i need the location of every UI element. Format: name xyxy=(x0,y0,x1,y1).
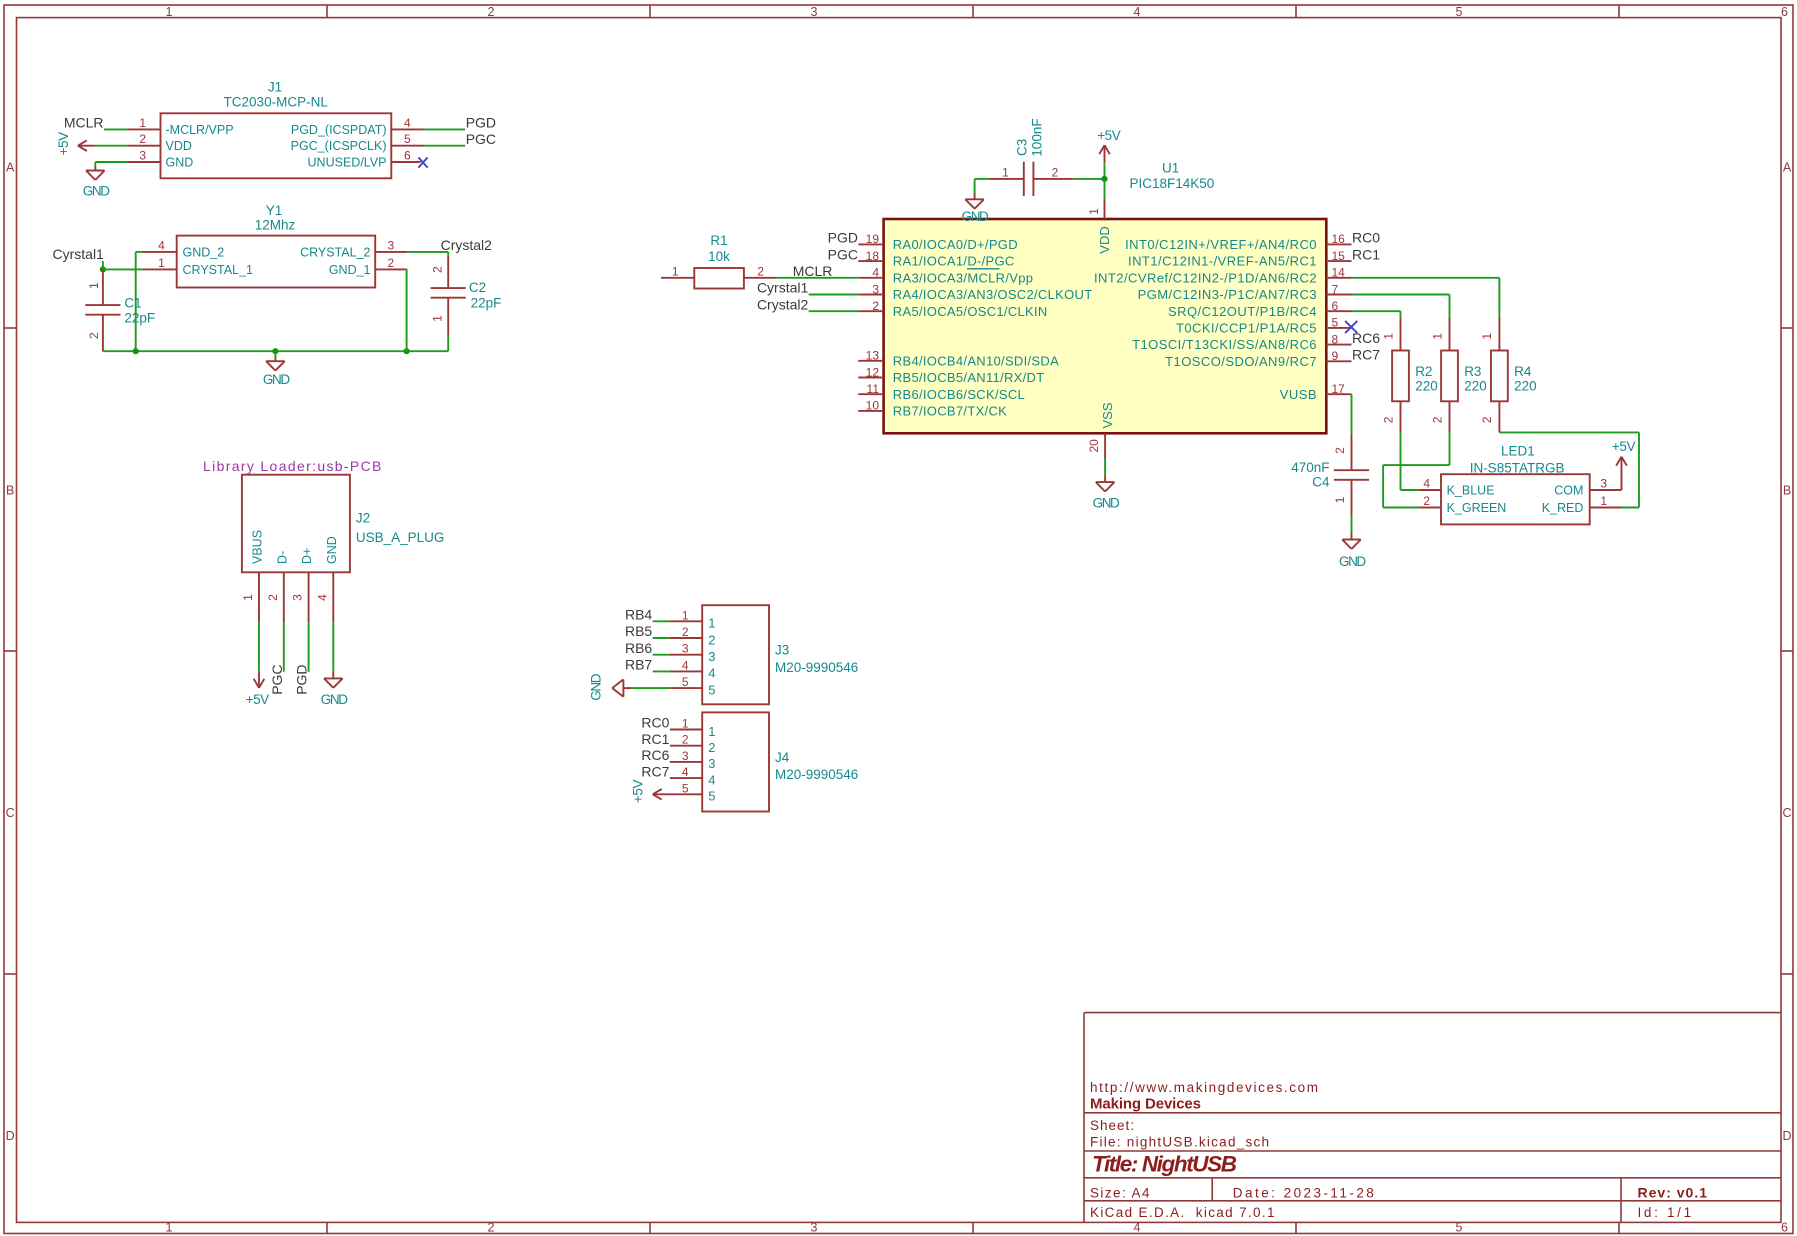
svg-text:LED1: LED1 xyxy=(1501,443,1535,458)
svg-text:1: 1 xyxy=(166,1221,173,1235)
svg-text:8: 8 xyxy=(1332,332,1339,346)
svg-text:1: 1 xyxy=(1333,496,1347,503)
label PGC (U1 pin 18) xyxy=(828,246,858,262)
J1 pin 6 UNUSED/LVP xyxy=(308,149,421,170)
svg-text:PGC: PGC xyxy=(828,246,858,262)
svg-text:RC0: RC0 xyxy=(641,715,669,731)
LED1 reference LED1 xyxy=(1501,443,1535,458)
svg-text:PGD: PGD xyxy=(294,664,310,694)
R1 reference R1 xyxy=(710,233,727,248)
R4 value 220 xyxy=(1514,378,1537,393)
svg-text:Making Devices: Making Devices xyxy=(1090,1095,1201,1112)
svg-text:+5V: +5V xyxy=(1612,439,1636,454)
svg-text:RB7: RB7 xyxy=(625,657,652,673)
svg-text:1: 1 xyxy=(158,256,165,270)
svg-text:B: B xyxy=(1783,483,1791,497)
svg-text:GND_2: GND_2 xyxy=(183,245,225,259)
svg-text:GND: GND xyxy=(83,184,110,199)
svg-text:2: 2 xyxy=(431,266,445,273)
svg-text:T0CKI/CCP1/P1A/RC5: T0CKI/CCP1/P1A/RC5 xyxy=(1176,321,1317,336)
svg-text:17: 17 xyxy=(1332,382,1346,396)
label Cyrstal1 (U1 pin 3) xyxy=(757,280,809,296)
svg-text:Library Loader:usb-PCB: Library Loader:usb-PCB xyxy=(203,458,381,474)
wire U1 pin 14 to R4 xyxy=(1352,278,1500,318)
svg-text:3: 3 xyxy=(811,1221,818,1235)
J1 pin 1 -MCLR/VPP xyxy=(128,116,234,137)
svg-text:Crystal2: Crystal2 xyxy=(757,296,809,312)
title block Id: 1/1 xyxy=(1638,1205,1692,1220)
C2 reference C2 xyxy=(469,280,486,295)
svg-text:3: 3 xyxy=(139,149,146,163)
svg-text:10: 10 xyxy=(866,399,880,413)
svg-text:5: 5 xyxy=(1456,5,1463,19)
U1 pin 4 RA3/IOCA3/MCLR/Vpp xyxy=(858,266,1033,286)
wire U1 pin 17 (VUSB) down to C4 xyxy=(1351,394,1353,433)
svg-text:2: 2 xyxy=(682,733,689,747)
title block Rev: v0.1 xyxy=(1638,1184,1708,1200)
ground GND at J3 pin 5 (left arrow) xyxy=(588,673,631,700)
U1 pin 15 INT1/C12IN1-/VREF-AN5/RC1 xyxy=(1128,249,1351,269)
wire RB7 to J3 xyxy=(653,670,670,672)
title block Date: 2023-11-28 xyxy=(1233,1185,1374,1200)
J4 pin 4 xyxy=(670,765,716,787)
svg-text:+5V: +5V xyxy=(631,780,646,804)
title block Sheet: xyxy=(1090,1118,1134,1133)
svg-text:+5V: +5V xyxy=(246,692,270,707)
svg-text:K_RED: K_RED xyxy=(1542,501,1584,515)
ground GND at U1 VSS xyxy=(1093,476,1120,511)
C3 reference C3 xyxy=(1015,139,1030,156)
svg-text:RA5/IOCA5/OSC1/CLKIN: RA5/IOCA5/OSC1/CLKIN xyxy=(893,304,1048,319)
svg-text:D+: D+ xyxy=(300,548,314,564)
label RC6 (J4) xyxy=(641,747,669,763)
wire U1 pin 3 to Cyrstal1 label xyxy=(809,294,859,296)
svg-text:18: 18 xyxy=(866,249,880,263)
svg-text:GND: GND xyxy=(1339,554,1366,569)
svg-text:J3: J3 xyxy=(775,643,789,658)
svg-text:2: 2 xyxy=(872,299,879,313)
svg-text:PIC18F14K50: PIC18F14K50 xyxy=(1130,176,1215,191)
J1 value TC2030-MCP-NL xyxy=(224,94,329,109)
svg-text:-MCLR/VPP: -MCLR/VPP xyxy=(166,123,234,137)
svg-text:VSS: VSS xyxy=(1100,402,1115,428)
capacitor C3 symbol xyxy=(989,162,1072,196)
svg-text:D: D xyxy=(1782,1129,1791,1143)
svg-text:RB7/IOCB7/TX/CK: RB7/IOCB7/TX/CK xyxy=(893,404,1007,419)
Y1 pin 1 CRYSTAL_1 xyxy=(143,256,253,277)
junction VDD node xyxy=(1101,176,1107,182)
svg-text:9: 9 xyxy=(1332,349,1339,363)
J2 pin 2 D- xyxy=(266,551,289,623)
wire J2 pin 1 to +5V xyxy=(258,622,260,672)
svg-text:M20-9990546: M20-9990546 xyxy=(775,767,858,782)
wire C3 pin1 to GND corner xyxy=(975,179,990,193)
svg-text:CRYSTAL_1: CRYSTAL_1 xyxy=(183,263,253,277)
svg-text:4: 4 xyxy=(682,765,689,779)
label Cyrstal1 xyxy=(53,246,105,262)
svg-text:R3: R3 xyxy=(1464,364,1481,379)
connector J2 body xyxy=(242,475,350,573)
ground GND at J2 pin 4 xyxy=(321,672,348,707)
crystal Y1 body xyxy=(177,236,376,288)
svg-text:100nF: 100nF xyxy=(1030,118,1045,156)
R3 value 220 xyxy=(1464,378,1487,393)
svg-text:2: 2 xyxy=(708,632,715,647)
power +5V at LED1 pin 3 (COM) xyxy=(1612,439,1636,490)
svg-text:22pF: 22pF xyxy=(124,310,155,325)
power +5V at J4 pin 5 (left arrow) xyxy=(631,780,671,804)
svg-text:1: 1 xyxy=(682,717,689,731)
svg-text:Title: NightUSB: Title: NightUSB xyxy=(1092,1152,1237,1177)
ground GND at C3 pin 1 xyxy=(962,193,989,224)
svg-text:RA4/IOCA3/AN3/OSC2/CLKOUT: RA4/IOCA3/AN3/OSC2/CLKOUT xyxy=(893,287,1093,302)
svg-text:PGC: PGC xyxy=(466,131,496,147)
svg-text:C3: C3 xyxy=(1015,139,1030,156)
svg-text:3: 3 xyxy=(1600,477,1607,491)
J4 value M20-9990546 xyxy=(775,767,858,782)
resistor R1 xyxy=(661,264,777,288)
IC U1 body xyxy=(884,219,1327,433)
J2 reference J2 xyxy=(356,511,370,526)
junction bottom wire / GND stub xyxy=(272,348,278,354)
U1 value PIC18F14K50 xyxy=(1130,176,1215,191)
svg-text:1: 1 xyxy=(708,724,715,739)
svg-text:7: 7 xyxy=(1332,282,1339,296)
svg-text:3: 3 xyxy=(708,649,715,664)
J4 reference J4 xyxy=(775,750,790,765)
svg-text:R4: R4 xyxy=(1514,364,1532,379)
svg-text:2: 2 xyxy=(87,332,101,339)
svg-text:4: 4 xyxy=(404,116,411,130)
U1 pin 3 RA4/IOCA3/AN3/OSC2/CLKOUT xyxy=(858,282,1092,302)
wire Y1 pin 3 to Crystal2/C2 xyxy=(407,252,448,256)
label PGD (J2 pin 3) xyxy=(294,664,310,694)
svg-text:1: 1 xyxy=(682,608,689,622)
label RC6 (U1 pin 8) xyxy=(1352,330,1380,346)
svg-text:Y1: Y1 xyxy=(266,203,283,218)
U1 pin 10 RB7/IOCB7/TX/CK xyxy=(858,399,1007,419)
svg-text:MCLR: MCLR xyxy=(64,114,104,130)
svg-text:RB6/IOCB6/SCK/SCL: RB6/IOCB6/SCK/SCL xyxy=(893,387,1025,402)
svg-text:3: 3 xyxy=(872,282,879,296)
J4 pin 3 xyxy=(670,749,716,771)
svg-text:Rev: v0.1: Rev: v0.1 xyxy=(1638,1184,1708,1200)
svg-text:2: 2 xyxy=(488,5,495,19)
wire R3 to LED1 pin 2 (K_GREEN) xyxy=(1383,432,1449,507)
svg-text:J2: J2 xyxy=(356,511,370,526)
J4 pin 2 xyxy=(670,733,716,755)
U1 pin 12 RB5/IOCB5/AN11/RX/DT xyxy=(858,365,1044,385)
LED1 pin 4 K_BLUE xyxy=(1418,477,1494,498)
svg-text:T1OSCO/SDO/AN9/RC7: T1OSCO/SDO/AN9/RC7 xyxy=(1165,354,1317,369)
svg-text:INT1/C12IN1-/VREF-AN5/RC1: INT1/C12IN1-/VREF-AN5/RC1 xyxy=(1128,254,1317,269)
R1 value 10k xyxy=(708,249,730,264)
svg-text:RC7: RC7 xyxy=(1352,347,1380,363)
svg-text:K_GREEN: K_GREEN xyxy=(1447,501,1507,515)
svg-text:CRYSTAL_2: CRYSTAL_2 xyxy=(300,245,370,259)
U1 reference U1 xyxy=(1162,161,1179,176)
svg-text:15: 15 xyxy=(1332,249,1346,263)
no-connect X at J1 pin 6 xyxy=(418,157,427,167)
svg-text:C: C xyxy=(1782,806,1791,820)
svg-text:5: 5 xyxy=(1332,316,1339,330)
svg-text:2: 2 xyxy=(1052,166,1059,180)
svg-text:RB4/IOCB4/AN10/SDI/SDA: RB4/IOCB4/AN10/SDI/SDA xyxy=(893,353,1059,368)
svg-text:D: D xyxy=(6,1129,15,1143)
svg-text:RC6: RC6 xyxy=(641,747,669,763)
svg-text:4: 4 xyxy=(1134,5,1141,19)
svg-text:RA3/IOCA3/MCLR/Vpp: RA3/IOCA3/MCLR/Vpp xyxy=(893,270,1034,285)
U1 pin 8 T1OSCI/T13CKI/SS/AN8/RC6 xyxy=(1132,332,1351,352)
svg-text:COM: COM xyxy=(1554,484,1583,498)
title block frame xyxy=(1084,1013,1781,1223)
wire C3 pin2 to VDD junction xyxy=(1073,178,1105,180)
svg-text:VDD: VDD xyxy=(166,139,192,153)
LED LED1 body xyxy=(1441,474,1590,524)
svg-text:Crystal2: Crystal2 xyxy=(441,237,493,253)
svg-text:4: 4 xyxy=(1134,1221,1141,1235)
svg-text:3: 3 xyxy=(682,749,689,763)
capacitor C4 symbol xyxy=(1333,433,1369,516)
svg-text:5: 5 xyxy=(1456,1221,1463,1235)
resistor R2 xyxy=(1381,318,1409,433)
label RB4 (J3) xyxy=(625,607,652,623)
wire J2 pin 2 to PGC label xyxy=(283,622,285,672)
svg-text:2: 2 xyxy=(488,1221,495,1235)
wire R2 to LED1 pin 4 (K_BLUE) xyxy=(1401,432,1419,490)
svg-text:GND: GND xyxy=(325,536,339,564)
svg-text:19: 19 xyxy=(866,232,880,246)
junction bottom wire / Y1 pin4 branch xyxy=(133,348,139,354)
C3 value 100nF xyxy=(1030,118,1045,156)
wire C2 bottom to bottom net xyxy=(447,335,449,351)
svg-text:22pF: 22pF xyxy=(471,296,502,311)
label MCLR (J1 pin 1) xyxy=(64,114,104,130)
svg-text:4: 4 xyxy=(682,658,689,672)
resistor R3 xyxy=(1430,318,1458,433)
svg-text:16: 16 xyxy=(1332,232,1346,246)
wire Y1 pin 2 down to bottom net xyxy=(406,269,409,351)
svg-text:GND_1: GND_1 xyxy=(329,263,371,277)
svg-text:GND: GND xyxy=(321,692,348,707)
svg-text:1: 1 xyxy=(1087,208,1101,215)
wire Cyrstal1 label to junction xyxy=(102,261,104,269)
J3 pin 1 xyxy=(670,608,716,630)
svg-text:3: 3 xyxy=(388,238,395,252)
wire U1 pin 6 to R2 xyxy=(1352,311,1401,317)
svg-text:470nF: 470nF xyxy=(1291,460,1329,475)
svg-text:4: 4 xyxy=(708,666,715,681)
svg-text:2: 2 xyxy=(1423,494,1430,508)
svg-text:4: 4 xyxy=(1423,477,1430,491)
LED1 value IN-S85TATRGB xyxy=(1470,460,1565,475)
label RB7 (J3) xyxy=(625,657,652,673)
label RC0 (J4) xyxy=(641,715,669,731)
U1 pin 17 VUSB xyxy=(1280,382,1352,402)
svg-text:1: 1 xyxy=(672,264,679,278)
svg-text:INT0/C12IN+/VREF+/AN4/RC0: INT0/C12IN+/VREF+/AN4/RC0 xyxy=(1125,237,1317,252)
wire J2 pin 3 to PGD label xyxy=(308,622,310,672)
wire RB6 to J3 xyxy=(653,654,670,656)
power +5V (down arrow) at J2 pin 1 xyxy=(246,672,270,707)
svg-text:IN-S85TATRGB: IN-S85TATRGB xyxy=(1470,460,1565,475)
svg-text:10k: 10k xyxy=(708,249,730,264)
svg-text:C4: C4 xyxy=(1312,474,1330,489)
svg-text:C2: C2 xyxy=(469,280,486,295)
U1 pin 16 INT0/C12IN+/VREF+/AN4/RC0 xyxy=(1125,232,1351,252)
title block Size: A4 xyxy=(1090,1185,1150,1200)
svg-text:1: 1 xyxy=(431,315,445,322)
power +5V symbol at J1 pin 2 xyxy=(56,132,95,156)
svg-text:1: 1 xyxy=(166,5,173,19)
C4 value 470nF xyxy=(1291,460,1329,475)
svg-text:T1OSCI/T13CKI/SS/AN8/RC6: T1OSCI/T13CKI/SS/AN8/RC6 xyxy=(1132,337,1317,352)
capacitor C1 symbol xyxy=(85,269,120,351)
svg-text:RB4: RB4 xyxy=(625,607,652,623)
ground GND at C4 xyxy=(1339,534,1366,570)
svg-text:C1: C1 xyxy=(124,296,141,311)
J2 footprint label Library Loader:usb-PCB xyxy=(203,458,381,474)
Y1 pin 4 GND_2 xyxy=(143,238,225,259)
junction at Cyrstal1 node xyxy=(100,266,106,272)
svg-text:2: 2 xyxy=(757,264,764,278)
svg-text:1: 1 xyxy=(241,594,255,601)
J1 pin 5 PGC_(ICSPCLK) xyxy=(291,132,423,153)
svg-text:14: 14 xyxy=(1332,266,1346,280)
wire RB5 to J3 xyxy=(653,637,670,639)
svg-text:A: A xyxy=(1783,160,1792,174)
J1 reference J1 xyxy=(268,80,282,95)
ground GND under Y1 xyxy=(263,351,290,387)
svg-text:RC1: RC1 xyxy=(641,731,669,747)
J1 pin 3 GND xyxy=(128,149,194,170)
svg-text:http://www.makingdevices.com: http://www.makingdevices.com xyxy=(1090,1080,1318,1095)
svg-text:220: 220 xyxy=(1415,378,1438,393)
svg-text:PGD_(ICSPDAT): PGD_(ICSPDAT) xyxy=(291,123,387,137)
J3 value M20-9990546 xyxy=(775,660,858,675)
svg-text:2: 2 xyxy=(682,625,689,639)
bottom ground wire under Y1 xyxy=(103,350,448,352)
svg-text:INT2/CVRef/C12IN2-/P1D/AN6/RC2: INT2/CVRef/C12IN2-/P1D/AN6/RC2 xyxy=(1094,270,1317,285)
svg-text:GND: GND xyxy=(962,209,989,224)
title block Title: NightUSB xyxy=(1092,1152,1237,1177)
svg-text:GND: GND xyxy=(166,155,194,169)
wire U1 pin 2 to Crystal2 label xyxy=(809,310,859,312)
U1 pin 19 RA0/IOCA0/D+/PGD xyxy=(858,232,1018,252)
svg-text:RB5: RB5 xyxy=(625,623,652,639)
wire R1 pin 2 to MCLR net / U1 pin 4 xyxy=(777,277,859,279)
svg-text:1: 1 xyxy=(1600,494,1607,508)
J3 pin 4 xyxy=(670,658,716,680)
svg-text:J1: J1 xyxy=(268,80,282,95)
label RC1 (U1 pin 15) xyxy=(1352,246,1380,262)
svg-text:PGC: PGC xyxy=(269,664,285,694)
R2 reference R2 xyxy=(1415,364,1432,379)
wire junction to Y1 pin 1 xyxy=(103,268,143,270)
svg-text:Id: 1/1: Id: 1/1 xyxy=(1638,1205,1692,1220)
wire Y1 pin 4 down to bottom net xyxy=(136,252,143,351)
wire J1 pin 4 to PGD label xyxy=(423,128,465,130)
svg-text:PGD: PGD xyxy=(828,230,858,246)
svg-text:U1: U1 xyxy=(1162,161,1179,176)
svg-text:1: 1 xyxy=(87,282,101,289)
svg-text:RA0/IOCA0/D+/PGD: RA0/IOCA0/D+/PGD xyxy=(893,237,1018,252)
wire R4 to LED1 pin 1 (K_RED) xyxy=(1499,432,1639,507)
svg-text:2: 2 xyxy=(388,256,395,270)
svg-text:R2: R2 xyxy=(1415,364,1432,379)
svg-text:2: 2 xyxy=(1430,416,1444,423)
Y1 pin 3 CRYSTAL_2 xyxy=(300,238,407,259)
svg-text:+5V: +5V xyxy=(56,132,71,156)
svg-text:1: 1 xyxy=(1381,333,1395,340)
svg-text:2: 2 xyxy=(266,594,280,601)
J1 pin 4 PGD_(ICSPDAT) xyxy=(291,116,423,137)
J2 pin 1 VBUS xyxy=(241,530,264,622)
J3 reference J3 xyxy=(775,643,789,658)
U1 pin 6 SRQ/C12OUT/P1B/RC4 xyxy=(1168,299,1351,319)
svg-text:RB6: RB6 xyxy=(625,640,652,656)
LED1 pin 1 K_RED xyxy=(1542,494,1622,515)
C1 value 22pF xyxy=(124,310,155,325)
svg-text:220: 220 xyxy=(1464,378,1487,393)
svg-text:M20-9990546: M20-9990546 xyxy=(775,660,858,675)
connector J4 body xyxy=(702,712,769,811)
svg-text:5: 5 xyxy=(682,781,689,795)
svg-text:RB5/IOCB5/AN11/RX/DT: RB5/IOCB5/AN11/RX/DT xyxy=(893,370,1045,385)
R2 value 220 xyxy=(1415,378,1438,393)
svg-text:3: 3 xyxy=(811,5,818,19)
label RC0 (U1 pin 16) xyxy=(1352,230,1380,246)
wire C4 to GND xyxy=(1351,516,1353,534)
wire MCLR to J1 pin 1 xyxy=(104,128,128,130)
U1 pin 2 RA5/IOCA5/OSC1/CLKIN xyxy=(858,299,1047,319)
wire J1 pin 5 to PGC label xyxy=(423,145,465,147)
svg-text:PGM/C12IN3-/P1C/AN7/RC3: PGM/C12IN3-/P1C/AN7/RC3 xyxy=(1138,287,1317,302)
svg-text:5: 5 xyxy=(708,682,715,697)
U1 pin 1 VDD (top) xyxy=(1087,199,1112,254)
svg-text:4: 4 xyxy=(158,238,165,252)
svg-text:RC6: RC6 xyxy=(1352,330,1380,346)
label RB5 (J3) xyxy=(625,623,652,639)
svg-text:6: 6 xyxy=(404,149,411,163)
svg-text:4: 4 xyxy=(708,772,715,787)
svg-text:Cyrstal1: Cyrstal1 xyxy=(53,246,105,262)
label RC7 (J4) xyxy=(641,763,669,779)
svg-text:4: 4 xyxy=(315,594,329,601)
U1 pin 5 T0CKI/CCP1/P1A/RC5 xyxy=(1176,316,1352,336)
label MCLR (U1 pin 4) xyxy=(793,263,833,279)
U1 pin 7 PGM/C12IN3-/P1C/AN7/RC3 xyxy=(1138,282,1352,302)
label RC1 (J4) xyxy=(641,731,669,747)
svg-text:Sheet:: Sheet: xyxy=(1090,1118,1134,1133)
svg-text:RC1: RC1 xyxy=(1352,246,1380,262)
svg-text:5: 5 xyxy=(404,132,411,146)
svg-text:K_BLUE: K_BLUE xyxy=(1447,484,1495,498)
label PGD xyxy=(466,114,496,130)
U1 pin 14 INT2/CVRef/C12IN2-/P1D/AN6/RC2 xyxy=(1094,266,1352,286)
label PGC (J2 pin 2) xyxy=(269,664,285,694)
label Crystal2 (U1 pin 2) xyxy=(757,296,809,312)
connector J3 body xyxy=(702,605,769,704)
svg-text:UNUSED/LVP: UNUSED/LVP xyxy=(308,155,387,169)
svg-text:1: 1 xyxy=(1002,166,1009,180)
svg-text:12: 12 xyxy=(866,365,880,379)
svg-text:File: nightUSB.kicad_sch: File: nightUSB.kicad_sch xyxy=(1090,1134,1269,1149)
U1 pin 13 RB4/IOCB4/AN10/SDI/SDA xyxy=(858,349,1059,369)
svg-text:RC7: RC7 xyxy=(641,763,669,779)
svg-text:TC2030-MCP-NL: TC2030-MCP-NL xyxy=(224,94,329,109)
no-connect X at U1 pin 5 xyxy=(1345,321,1357,333)
